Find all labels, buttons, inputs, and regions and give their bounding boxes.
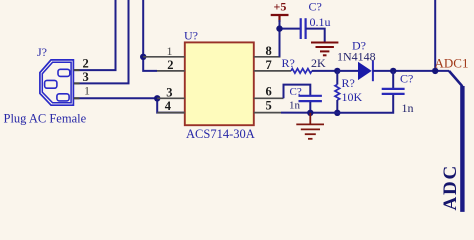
svg-text:J?: J?: [37, 45, 47, 59]
svg-text:U?: U?: [184, 29, 198, 43]
wire: pin 6 to C? 1n (left): [284, 85, 311, 99]
svg-text:2: 2: [83, 57, 89, 71]
capacitor C? 1n (left): [299, 96, 322, 113]
wire: +5 to pin 8 and C?: [280, 20, 301, 57]
svg-text:5: 5: [266, 99, 272, 113]
svg-text:10K: 10K: [342, 90, 363, 104]
node: junction pins 3-4: [154, 95, 160, 101]
svg-text:1: 1: [167, 44, 173, 58]
diode D? 1N4148: [358, 61, 373, 82]
wire: vertical from top to connector pin 2: [74, 0, 116, 70]
connector J1 pin slot bottom: [57, 94, 69, 101]
capacitor C? 0.1u plates: [301, 18, 306, 39]
resistor R? 10K vertical: [335, 71, 340, 113]
bus ADC vertical: [460, 86, 464, 212]
node: junction R2K/R10K/diode: [334, 68, 340, 74]
pin 5 line: [254, 112, 281, 114]
node: junction pins 1-2: [140, 54, 146, 60]
wire: R? 2K to junction: [312, 70, 338, 72]
connector J1 pin slot middle: [45, 80, 57, 88]
resistor R? 2K zigzag: [291, 69, 312, 74]
svg-text:Plug AC Female: Plug AC Female: [4, 112, 87, 126]
connector J1 pin slot top: [58, 69, 70, 76]
pin 7 line: [254, 70, 291, 72]
wire: bottom rail pin 5: [281, 112, 338, 114]
svg-text:1: 1: [84, 84, 90, 98]
wire: vertical from top right: [434, 0, 436, 71]
wire: vertical from top to connector pin 3: [74, 0, 129, 83]
bus entry: [449, 71, 462, 86]
node: junction diode / C?: [390, 68, 396, 74]
node: junction ADC1: [432, 68, 438, 74]
svg-text:R?: R?: [342, 76, 355, 90]
connector J1 outer shell: [40, 60, 74, 105]
node: +5 junction: [276, 25, 282, 31]
ground symbol (bottom, under C? 1n): [296, 113, 324, 139]
svg-text:4: 4: [165, 99, 172, 113]
pin 6 line: [254, 97, 284, 99]
capacitor C? 1n (right): [337, 71, 404, 113]
wire: connector pin 1 to U? pins 3-4: [74, 98, 185, 112]
svg-text:1n: 1n: [402, 101, 414, 115]
node: junction C? 1n / ground: [307, 110, 313, 116]
pin 1 line: [143, 56, 185, 58]
pin 4 line: [157, 112, 185, 114]
svg-text:8: 8: [266, 44, 272, 58]
svg-text:7: 7: [266, 58, 272, 72]
wire: C? to ground: [306, 29, 325, 42]
ground symbol (top, after C?): [311, 43, 338, 56]
svg-text:+5: +5: [274, 0, 287, 14]
connector pin stubs: [74, 70, 80, 98]
svg-text:2K: 2K: [311, 56, 326, 70]
svg-text:2: 2: [167, 58, 173, 72]
svg-text:ADC1: ADC1: [435, 55, 469, 70]
svg-text:C?: C?: [309, 0, 322, 14]
pin 3 line: [157, 97, 185, 99]
pin 2 line: [157, 70, 185, 72]
wire: vertical from top to U? pins 1-2: [143, 0, 157, 71]
svg-text:1N4148: 1N4148: [337, 50, 376, 64]
svg-text:0.1u: 0.1u: [310, 15, 331, 29]
wire: junction to diode: [337, 70, 358, 72]
node: junction R10K bottom rail: [334, 110, 340, 116]
svg-text:R?: R?: [282, 56, 295, 70]
power +5 symbol: [271, 15, 289, 22]
wire: diode cathode to ADC1: [373, 70, 449, 72]
svg-text:3: 3: [83, 70, 89, 84]
svg-text:C?: C?: [290, 86, 302, 98]
svg-text:6: 6: [266, 85, 272, 99]
svg-text:ACS714-30A: ACS714-30A: [186, 127, 255, 141]
svg-text:ADC: ADC: [440, 164, 461, 211]
svg-text:1n: 1n: [289, 100, 301, 112]
svg-text:C?: C?: [400, 71, 413, 85]
svg-text:3: 3: [166, 85, 172, 99]
op-amp U? body (ACS714): [185, 42, 254, 125]
pin 8 line: [254, 56, 281, 58]
